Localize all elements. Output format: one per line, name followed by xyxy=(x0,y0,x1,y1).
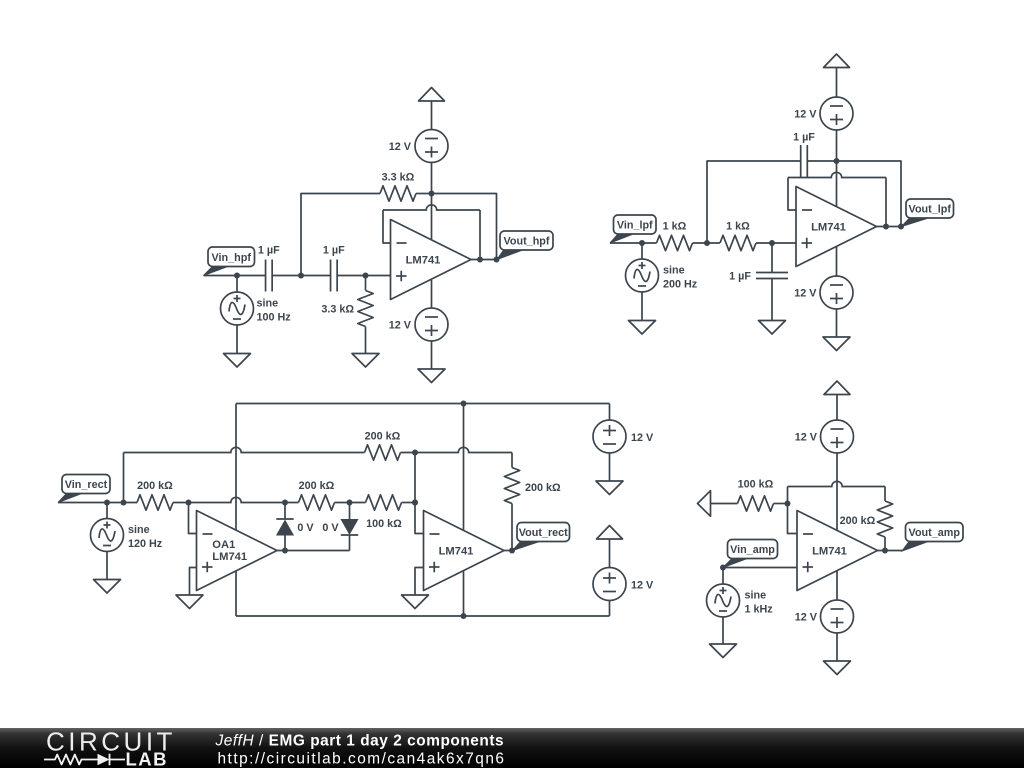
resistor R8 200k feedback xyxy=(365,445,401,460)
svg-text:12 V: 12 V xyxy=(631,432,654,444)
ground below V4 xyxy=(629,321,656,335)
wire feedback down to R11 xyxy=(884,487,886,502)
wire Vin_lpf to R3 xyxy=(610,242,657,244)
wire C4 to ground xyxy=(771,279,773,321)
node supply/feedback junction lpf xyxy=(834,158,840,164)
svg-text:LM741: LM741 xyxy=(811,222,846,234)
node summing junction crossing xyxy=(412,500,418,506)
op-amp OA1 LM741 xyxy=(197,511,278,591)
wire V6 to ground xyxy=(836,309,838,337)
svg-text:LM741: LM741 xyxy=(406,255,441,267)
source V2 12V top xyxy=(415,130,448,163)
ground below V1 xyxy=(224,354,251,368)
wire C4 top lead xyxy=(771,243,773,273)
wire second rail right with hop xyxy=(401,447,513,452)
wire top supply rail xyxy=(236,403,610,405)
wire outer feedback loop lpf xyxy=(837,161,902,227)
svg-text:LM741: LM741 xyxy=(212,551,247,563)
wire V3 to ground xyxy=(431,341,433,369)
node C junction R3-R4 xyxy=(704,240,710,246)
resistor R3 1k xyxy=(657,235,693,250)
svg-text:Vin_hpf: Vin_hpf xyxy=(212,252,252,264)
op-amp U1 LM741 hpf xyxy=(391,220,472,300)
wire R1 to ground xyxy=(365,327,367,354)
node amp + input junction xyxy=(720,565,726,571)
svg-text:1 kΩ: 1 kΩ xyxy=(726,221,750,233)
source V10 sine 1kHz xyxy=(707,584,740,617)
wire unity feedback down to output lpf xyxy=(885,178,887,227)
node U3 output junction xyxy=(509,548,515,554)
wire ground flag to R10 xyxy=(711,503,738,505)
wire unity feedback with hop xyxy=(383,205,480,210)
wire flag to R5 xyxy=(58,502,137,504)
svg-text:100 kΩ: 100 kΩ xyxy=(738,479,774,491)
svg-text:12 V: 12 V xyxy=(795,432,818,444)
wire V1 to input rail xyxy=(236,276,238,293)
wire op-amp output xyxy=(471,259,497,261)
svg-text:0 V: 0 V xyxy=(322,522,339,534)
svg-text:Vout_hpf: Vout_hpf xyxy=(504,236,550,248)
power arrow +V amp xyxy=(824,381,850,395)
wire V2 to node xyxy=(431,163,433,194)
op-amp U2 LM741 lpf xyxy=(796,187,877,267)
wire top rail to V8 xyxy=(609,404,611,421)
node bottom rail junction xyxy=(461,613,467,619)
wire arrow to V9 xyxy=(609,539,611,568)
wire R9 bottom lead xyxy=(511,504,513,551)
resistor R9 200k feedback vertical xyxy=(504,468,519,504)
node V4 top junction xyxy=(639,240,645,246)
node V1 top junction xyxy=(234,273,240,279)
net flag Vin_amp xyxy=(723,558,749,568)
ground flag left amp xyxy=(698,491,711,517)
net flag Vin_lpf xyxy=(610,234,635,244)
wire V4 to ground xyxy=(641,292,643,321)
wire diode1 top lead xyxy=(284,503,286,520)
capacitor C3 1uF feedback xyxy=(800,145,802,177)
net flag Vout_rect xyxy=(513,541,542,551)
svg-text:0 V: 0 V xyxy=(297,522,314,534)
wire op-amp minus lead xyxy=(383,210,391,243)
resistor R6 200k xyxy=(299,495,335,510)
svg-text:sine: sine xyxy=(663,265,685,277)
source V7 sine 120Hz xyxy=(91,519,124,552)
source V6 12V bottom lpf xyxy=(820,276,853,309)
svg-text:LAB: LAB xyxy=(126,749,169,768)
node diode1 top xyxy=(282,500,288,506)
wire OA1 V+ riser xyxy=(235,404,237,531)
node R8 at summing riser xyxy=(412,450,418,456)
diode D2 xyxy=(341,520,357,535)
wire OA1 V- drop xyxy=(235,571,237,616)
resistor R10 100k xyxy=(738,496,774,511)
power arrow above V9 xyxy=(597,526,623,540)
svg-text:3.3 kΩ: 3.3 kΩ xyxy=(321,304,354,316)
capacitor C4 1uF to ground xyxy=(756,272,788,274)
wire OA1 plus lead to ground xyxy=(190,568,197,596)
wire V11 to op-amp V+ pin xyxy=(836,453,838,530)
wire R6 to R7 xyxy=(335,502,366,504)
wire V9 to bottom rail xyxy=(609,601,611,617)
source V1 sine 100Hz xyxy=(221,292,254,325)
svg-text:200 kΩ: 200 kΩ xyxy=(525,482,561,494)
svg-text:sine: sine xyxy=(128,524,150,536)
wire unity feedback down to output xyxy=(479,210,481,260)
wire V10 top lead xyxy=(722,568,724,585)
wire diode2 bottom lead xyxy=(349,535,351,551)
svg-text:12 V: 12 V xyxy=(631,580,654,592)
svg-text:1 µF: 1 µF xyxy=(729,271,751,283)
source V9 12V negative rail xyxy=(593,568,626,601)
node amp output junction xyxy=(882,548,888,554)
ground below C4 xyxy=(759,321,786,335)
power arrow +V lpf xyxy=(824,54,850,68)
wire R5 to R6 with hop xyxy=(173,497,299,502)
wire feedback node A up xyxy=(301,194,380,276)
source V5 12V top lpf xyxy=(820,97,853,130)
wire U3 V+ riser xyxy=(463,404,465,531)
svg-text:Vout_rect: Vout_rect xyxy=(519,527,568,539)
wire V8 to ground xyxy=(609,453,611,481)
wire V7 to ground xyxy=(106,552,108,580)
svg-text:200 Hz: 200 Hz xyxy=(663,279,698,291)
wire bottom supply rail xyxy=(236,615,610,617)
wire between C1 and C2 xyxy=(272,275,330,277)
capacitor C1 1uF xyxy=(265,260,267,292)
svg-text:12 V: 12 V xyxy=(794,109,817,121)
ground below V7 xyxy=(94,580,121,594)
net flag Vin_rect xyxy=(58,493,83,503)
node unity feedback at output xyxy=(477,257,483,263)
wire R1 top lead xyxy=(365,276,367,291)
svg-text:JeffH / EMG part 1 day 2 compo: JeffH / EMG part 1 day 2 components xyxy=(215,733,505,750)
node supply/feedback junction xyxy=(429,191,435,197)
CircuitLab logo resistor-diode squiggle xyxy=(44,755,98,765)
net flag Vout_hpf xyxy=(497,250,524,260)
svg-text:LM741: LM741 xyxy=(439,546,474,558)
svg-text:100 kΩ: 100 kΩ xyxy=(366,518,402,530)
wire U3 output xyxy=(504,550,512,552)
ground below V10 xyxy=(710,644,737,658)
wire V1 to ground xyxy=(236,325,238,354)
svg-text:http://circuitlab.com/can4ak6x: http://circuitlab.com/can4ak6x7qn6 xyxy=(218,751,506,768)
svg-text:12 V: 12 V xyxy=(795,612,818,624)
ground below V12 xyxy=(824,661,851,675)
wire V7 to input rail xyxy=(106,503,108,519)
wire feedback top with hop xyxy=(788,481,886,486)
wire Vin_hpf input rail xyxy=(204,275,266,277)
svg-text:200 kΩ: 200 kΩ xyxy=(137,480,173,492)
wire node to op-amp V+ pin xyxy=(431,194,433,240)
wire summing riser xyxy=(415,453,424,534)
svg-text:200 kΩ: 200 kΩ xyxy=(299,480,335,492)
svg-text:sine: sine xyxy=(257,298,279,310)
svg-text:Vout_amp: Vout_amp xyxy=(909,527,961,539)
wire V12 to ground xyxy=(836,633,838,661)
svg-text:100 Hz: 100 Hz xyxy=(257,312,292,324)
resistor R2 3.3k feedback xyxy=(380,186,416,201)
wire V4 to input rail xyxy=(641,243,643,259)
node A junction C1-C2-R2 xyxy=(298,273,304,279)
op-amp U3 LM741 rect xyxy=(424,511,505,591)
power arrow +V hpf xyxy=(419,88,445,102)
capacitor C2 1uF xyxy=(330,260,332,292)
wire outer feedback loop xyxy=(432,194,497,260)
resistor R11 200k feedback xyxy=(877,501,892,537)
svg-text:200 kΩ: 200 kΩ xyxy=(365,431,401,443)
svg-text:12 V: 12 V xyxy=(389,320,412,332)
node diode2 top xyxy=(347,500,353,506)
ground below V6 xyxy=(823,337,850,351)
wire unity feedback lpf with hop xyxy=(788,172,886,177)
wire node to op-amp V+ pin lpf xyxy=(836,161,838,207)
footer bar xyxy=(0,728,1024,768)
wire R11 to output xyxy=(884,537,886,551)
wire R4 to op-amp + input xyxy=(756,242,796,244)
wire rail riser up xyxy=(123,453,125,503)
node outer loop at output xyxy=(494,257,500,263)
svg-text:120 Hz: 120 Hz xyxy=(128,538,163,550)
svg-text:Vin_rect: Vin_rect xyxy=(65,479,108,491)
net flag Vout_amp xyxy=(902,541,930,551)
ground below V3 xyxy=(418,369,445,383)
svg-text:OA1: OA1 xyxy=(212,539,235,551)
wire inverting node down xyxy=(788,504,798,534)
wire R2 to supply node xyxy=(416,193,432,195)
node outer loop at output lpf xyxy=(898,224,904,230)
wire op-amp V- pin down lpf xyxy=(836,246,838,276)
wire diode2 top lead xyxy=(349,503,351,520)
source V12 12V bottom amp xyxy=(821,600,854,633)
wire R10 to inverting node xyxy=(774,503,788,505)
wire arrow to V5 xyxy=(836,68,838,97)
wire arrow to V2 xyxy=(431,101,433,129)
svg-text:Vout_lpf: Vout_lpf xyxy=(909,204,952,216)
wire diode1 bottom lead xyxy=(284,535,286,551)
net flag Vin_hpf xyxy=(204,266,230,276)
resistor R7 100k xyxy=(366,495,402,510)
resistor R1 3.3k to ground xyxy=(358,291,373,327)
wire op-amp minus lead lpf xyxy=(788,178,796,211)
node V7 top junction xyxy=(104,500,110,506)
wire R7 to summing node xyxy=(402,502,416,504)
source V4 sine 200Hz xyxy=(626,259,659,292)
resistor R4 1k xyxy=(720,235,756,250)
wire op-amp V- pin down xyxy=(431,280,433,308)
svg-text:Vin_amp: Vin_amp xyxy=(730,544,775,556)
ground below OA1 plus xyxy=(176,595,203,609)
node D junction R4-C4 xyxy=(769,240,775,246)
wire C3 to supply node xyxy=(807,160,836,162)
wire second rail left with hop xyxy=(124,447,365,452)
svg-text:12 V: 12 V xyxy=(794,288,817,300)
wire V5 to node xyxy=(836,130,838,161)
ground below R1 xyxy=(352,354,379,368)
node OA1 inverting junction xyxy=(186,500,192,506)
wire arrow to V11 xyxy=(836,395,838,421)
wire V10 to + input xyxy=(723,567,797,569)
wire OA1 output xyxy=(277,550,350,552)
svg-text:1 µF: 1 µF xyxy=(258,245,280,257)
wire U3 plus lead to ground xyxy=(415,568,424,596)
svg-text:3.3 kΩ: 3.3 kΩ xyxy=(382,172,415,184)
source V8 12V positive rail xyxy=(593,420,626,453)
svg-text:LM741: LM741 xyxy=(812,546,847,558)
node top rail junction xyxy=(461,401,467,407)
diode D1 xyxy=(276,518,293,520)
svg-text:sine: sine xyxy=(745,590,767,602)
source V3 12V bottom xyxy=(415,308,448,341)
wire op-amp V- pin to V12 xyxy=(836,571,838,600)
wire C2 to op-amp + input xyxy=(337,275,390,277)
wire R3 to R4 xyxy=(693,242,721,244)
net flag Vout_lpf xyxy=(902,218,931,227)
node summing junction main xyxy=(412,500,418,506)
svg-text:1 kHz: 1 kHz xyxy=(745,604,774,616)
wire inverting node up xyxy=(787,487,789,504)
ground below U3 plus xyxy=(402,595,429,609)
node rail riser junction xyxy=(121,500,127,506)
ground below V8 xyxy=(596,481,623,495)
svg-text:1 µF: 1 µF xyxy=(793,132,815,144)
op-amp U4 LM741 amp xyxy=(797,511,878,591)
resistor R5 200k input xyxy=(137,495,173,510)
wire amp output xyxy=(878,550,903,552)
node unity feedback at output lpf xyxy=(883,224,889,230)
source V11 12V top amp xyxy=(821,420,854,453)
wire OA1 minus lead xyxy=(189,503,197,534)
svg-text:1 kΩ: 1 kΩ xyxy=(663,221,687,233)
svg-text:Vin_lpf: Vin_lpf xyxy=(617,220,653,232)
wire V10 to ground xyxy=(722,617,724,644)
wire feedback node C up xyxy=(707,161,801,243)
svg-text:1 µF: 1 µF xyxy=(323,245,345,257)
node B junction C2-R1 xyxy=(363,273,369,279)
svg-text:200 kΩ: 200 kΩ xyxy=(840,515,876,527)
node diode1 bottom xyxy=(282,548,288,554)
wire U3 V- drop xyxy=(463,571,465,616)
wire op-amp output lpf xyxy=(877,226,902,228)
wire R9 top lead xyxy=(511,453,513,468)
svg-text:12 V: 12 V xyxy=(389,141,412,153)
node amp inverting junction xyxy=(785,501,791,507)
